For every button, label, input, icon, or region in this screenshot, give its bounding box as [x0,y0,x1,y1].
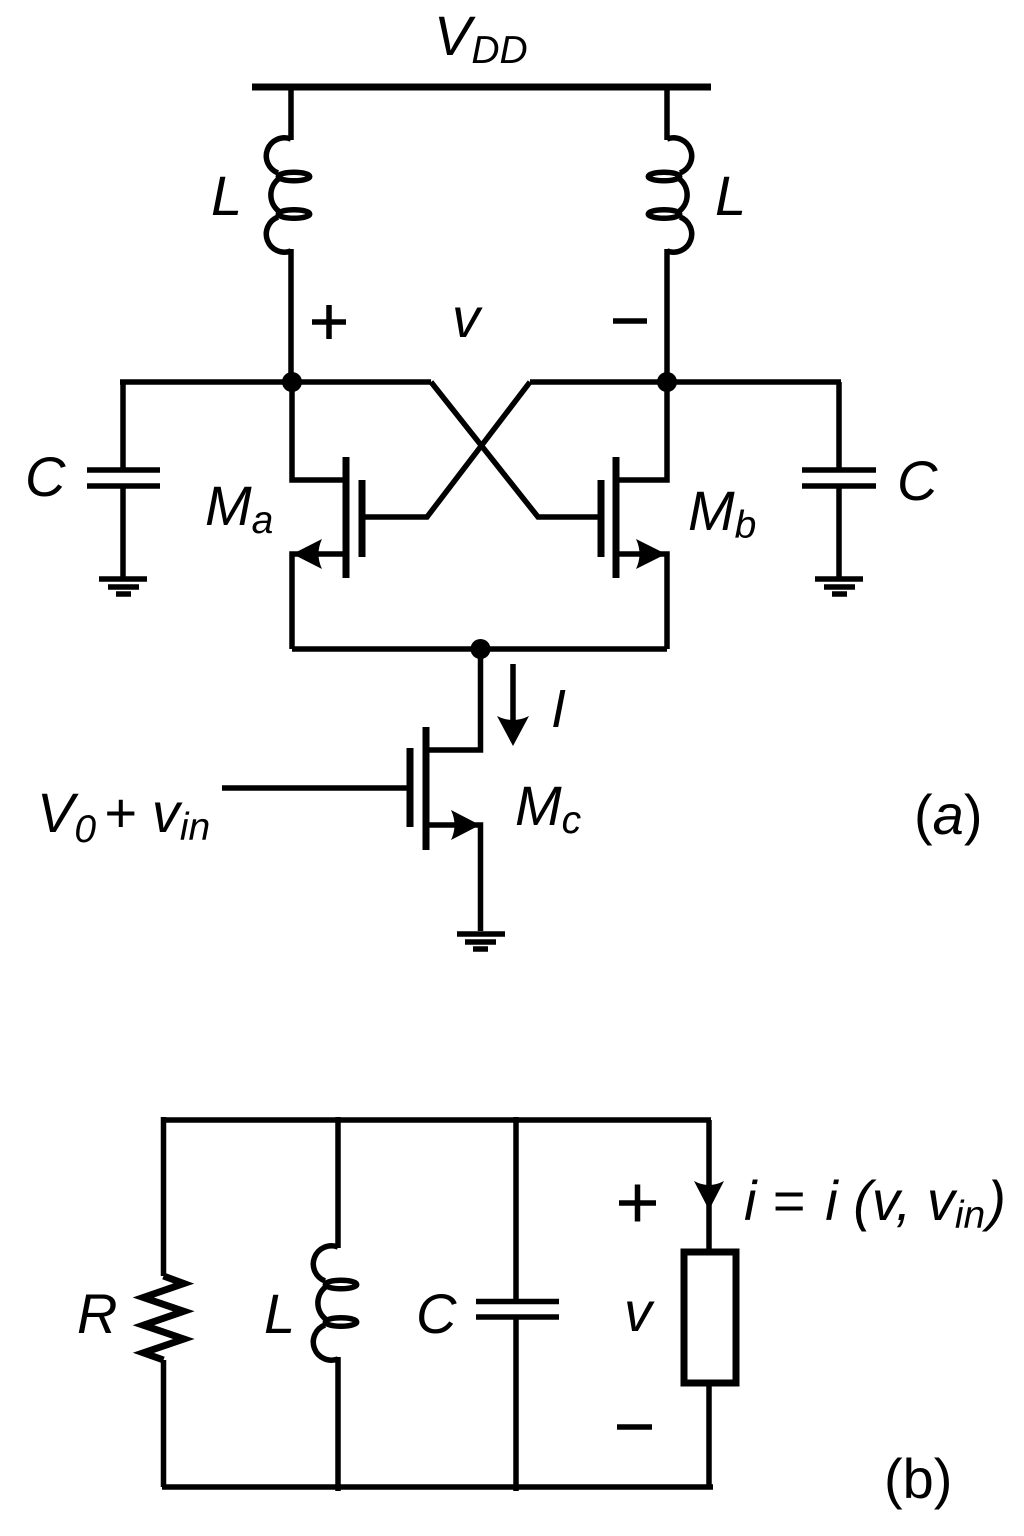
ground Mc [457,934,505,949]
nonlinear element box [684,1252,736,1383]
ground right [815,579,863,594]
node B junction dot right [657,372,677,392]
svg-text:I: I [551,679,566,739]
inductor L (b) [313,1117,356,1491]
svg-text:L: L [211,164,242,227]
wire tail node to Mc drain [426,649,481,750]
current arrowhead i (b) [694,1181,724,1210]
wire cross-couple left node to Mb gate [431,382,601,517]
current arrow I [497,664,529,746]
svg-text:(a): (a) [914,783,982,846]
capacitor C right [802,382,876,578]
wire right branch bottom (b) [706,1383,712,1487]
wire right leg from VDD to inductor [664,87,670,140]
transistor Mb [601,382,667,649]
svg-text:v: v [624,1280,655,1343]
wire right node rail [530,379,841,385]
node tail junction dot [471,639,491,659]
wire left inductor to node [288,249,294,382]
label minus sign of v [613,318,647,324]
label plus sign of v [312,305,346,339]
svg-text:R: R [77,1282,117,1345]
wire left leg from VDD to inductor [288,87,294,140]
label minus sign (b) [617,1424,652,1430]
capacitor C left [87,382,160,578]
wire right inductor to node [664,249,670,382]
svg-text:C: C [897,449,938,512]
label plus sign (b) [619,1185,656,1222]
capacitor C (b) [476,1117,559,1491]
wire VDD rail [252,84,711,91]
svg-text:L: L [715,164,746,227]
wire common source rail [292,646,667,652]
ground left [99,579,147,594]
node A junction dot left [282,372,302,392]
resistor R [143,1117,183,1487]
wire top rail of tank (b) [162,1117,711,1123]
svg-text:L: L [264,1282,295,1345]
svg-text:C: C [416,1282,457,1345]
svg-text:C: C [25,445,66,508]
wire left node rail [120,379,431,385]
transistor Ma [292,382,362,649]
svg-text:v: v [452,286,483,349]
inductor L left [266,138,309,252]
svg-text:(b): (b) [884,1447,952,1510]
wire cross-couple right node to Ma gate [362,382,530,517]
wire gate lead Vin [222,785,410,791]
inductor L right [648,138,691,252]
transistor Mc [410,727,481,931]
wire bottom rail of tank (b) [162,1484,713,1490]
wire right branch top (b) [706,1120,712,1252]
